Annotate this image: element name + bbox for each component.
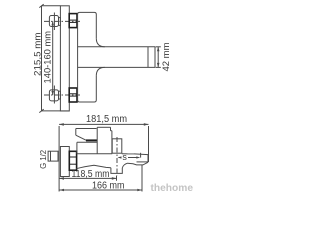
G 1/2 pipe stub	[48, 151, 58, 161]
svg-text:140-160 mm: 140-160 mm	[42, 31, 53, 84]
hex nut (side view)	[69, 151, 76, 170]
bottom connector pipe	[59, 91, 61, 99]
dimension line 181.5 mm	[59, 123, 148, 126]
centerline top connector	[44, 20, 80, 22]
faucet body (top view)	[78, 12, 97, 102]
extension line 166 right	[141, 165, 143, 192]
body top face (side view)	[77, 141, 97, 143]
svg-text:166 mm: 166 mm	[92, 181, 125, 192]
dimension line 166 mm	[59, 189, 142, 192]
top union nut	[49, 13, 58, 31]
handle lever	[76, 129, 97, 141]
spout underside	[77, 162, 149, 174]
svg-text:42 mm: 42 mm	[161, 42, 172, 71]
spout top (side view)	[77, 153, 148, 156]
svg-text:G 1/2: G 1/2	[39, 149, 48, 169]
svg-text:s: s	[122, 152, 127, 162]
dimension line 118.5 mm	[59, 177, 116, 180]
wall plate (side view)	[60, 147, 69, 177]
top hex nut	[69, 14, 77, 28]
knob centerline	[116, 137, 118, 176]
extension line outlet	[116, 176, 118, 181]
dimension line 42 mm	[156, 47, 161, 68]
svg-text:118,5 mm: 118,5 mm	[72, 169, 110, 180]
dimension line 140-160 mm	[51, 21, 54, 95]
bottom union nut	[49, 86, 58, 104]
bottom hex nut	[69, 88, 77, 102]
svg-text:thehome: thehome	[151, 182, 194, 194]
extension line spout end	[148, 126, 150, 162]
wall plate (top view)	[60, 6, 69, 111]
svg-text:181,5 mm: 181,5 mm	[86, 114, 127, 125]
diverter knob	[112, 139, 122, 153]
body front face (side view)	[76, 142, 78, 154]
spout (top view)	[78, 38, 155, 76]
dimension line 215.5 mm	[39, 4, 69, 112]
spout end face	[147, 155, 149, 163]
s leader	[118, 153, 141, 159]
extension line left (wall face)	[58, 126, 60, 192]
body cartridge cap (side view)	[97, 127, 112, 153]
centerline bottom connector	[44, 94, 80, 96]
top connector pipe	[59, 18, 61, 26]
watermark thehome	[151, 182, 194, 195]
